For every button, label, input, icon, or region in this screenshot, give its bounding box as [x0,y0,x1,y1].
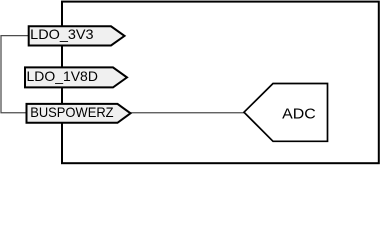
wire [131,112,245,114]
port LDO_1V8D [25,67,127,87]
port BUSPOWERZ [27,104,131,123]
svg-text:LDO_3V3: LDO_3V3 [30,26,94,42]
svg-text:BUSPOWERZ: BUSPOWERZ [30,104,114,120]
svg-text:ADC: ADC [282,106,316,122]
wire [1,36,29,113]
port ADC [244,84,328,142]
port LDO_3V3 [29,26,125,46]
sheet symbol rectangle [62,2,379,164]
svg-text:LDO_1V8D: LDO_1V8D [27,68,98,84]
